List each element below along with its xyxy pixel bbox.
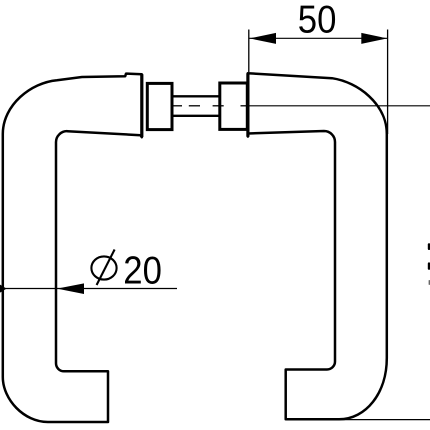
dimension 50: dimension line <box>249 37 387 39</box>
cropped text remnant 2 at right edge <box>428 262 430 269</box>
spindle shaft bottom line <box>173 115 220 117</box>
diameter symbol circle <box>91 256 116 279</box>
spindle shaft top line <box>173 95 220 97</box>
right handle neck end cap <box>246 73 249 136</box>
dimension 50: left arrowhead <box>250 33 277 44</box>
dimension 50: right arrowhead <box>361 33 387 44</box>
left handle outline <box>3 74 142 422</box>
left handle neck end cap <box>140 74 143 137</box>
dashed centerline: dash 4 <box>241 105 248 107</box>
diameter 20: arrowhead at inner edge <box>57 283 84 294</box>
dimension 50: left extension line <box>248 30 250 73</box>
cropped text remnant 3 at right edge <box>429 280 430 285</box>
svg-text:20: 20 <box>123 249 162 292</box>
right spindle collar <box>220 83 248 129</box>
cropped text remnant 1 at right edge <box>428 243 430 250</box>
baseline extension line at bottom right <box>339 419 430 421</box>
svg-text:50: 50 <box>298 0 337 41</box>
dashed centerline: dash 3 <box>213 105 224 107</box>
dimension 50: right extension line <box>387 30 389 135</box>
right handle outline <box>248 73 387 419</box>
solid centerline to right edge <box>248 105 430 107</box>
dashed centerline: dash 2 <box>189 105 200 107</box>
diameter symbol slash <box>97 250 115 286</box>
dashed centerline through spindle: dash 1 <box>173 105 182 107</box>
diameter 20: clipped arrowhead at outer edge <box>0 285 7 293</box>
left spindle collar <box>147 83 172 129</box>
diameter 20: dimension line <box>0 288 177 290</box>
